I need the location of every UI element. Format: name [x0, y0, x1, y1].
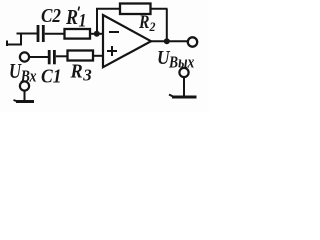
- input stub terminal top-left: [6, 34, 22, 47]
- wire: R2 to output riser: [151, 8, 168, 10]
- resistor R3: [68, 51, 94, 61]
- op-amp minus sign: [109, 31, 119, 33]
- ground terminal left: stem wire: [24, 91, 26, 102]
- svg-text:1: 1: [79, 11, 87, 32]
- op-amp U1: [103, 15, 151, 67]
- op-amp plus sign: [107, 46, 117, 56]
- ground terminal right: circle: [179, 68, 188, 77]
- svg-text:R: R: [65, 5, 78, 29]
- resistor R1: [65, 29, 91, 39]
- wire: R1 to inverting input: [90, 33, 103, 35]
- resistor R2 (feedback): [120, 4, 151, 15]
- label Uvyh: [157, 47, 195, 72]
- capacitor C1: [49, 50, 54, 64]
- wire: top feedback to R2: [96, 8, 120, 10]
- label R3: [70, 61, 93, 85]
- wire: stub to C2: [17, 33, 38, 35]
- ground left bar: [14, 100, 35, 102]
- svg-text:2: 2: [149, 19, 156, 34]
- output terminal circle: [188, 37, 197, 46]
- ground right bar: [169, 95, 197, 98]
- svg-text:R: R: [138, 12, 149, 33]
- wire: R3 to non-inverting input: [93, 55, 103, 57]
- node A junction dot: [94, 31, 100, 37]
- capacitor C2: [38, 25, 43, 42]
- wire: input circle to C1: [29, 56, 48, 58]
- input terminal circle (bottom path): [20, 52, 29, 61]
- wire: op-amp output: [151, 40, 188, 42]
- wire: C1 to R3: [56, 55, 67, 57]
- svg-text:3: 3: [82, 66, 92, 85]
- wire: feedback riser up from node A: [96, 9, 98, 34]
- wire: feedback drop to output: [166, 9, 168, 42]
- label R1 (with prime): [65, 5, 86, 32]
- svg-text:C1: C1: [41, 66, 62, 88]
- wire: C2 to R1: [45, 33, 64, 35]
- ground terminal right: stem wire: [183, 77, 185, 97]
- label Uvh: [9, 59, 37, 86]
- svg-text:C2: C2: [41, 5, 61, 27]
- node B junction dot (output/feedback): [164, 38, 170, 44]
- label R2: [138, 12, 156, 34]
- ground terminal left: circle: [20, 81, 29, 90]
- svg-text:R: R: [70, 61, 83, 83]
